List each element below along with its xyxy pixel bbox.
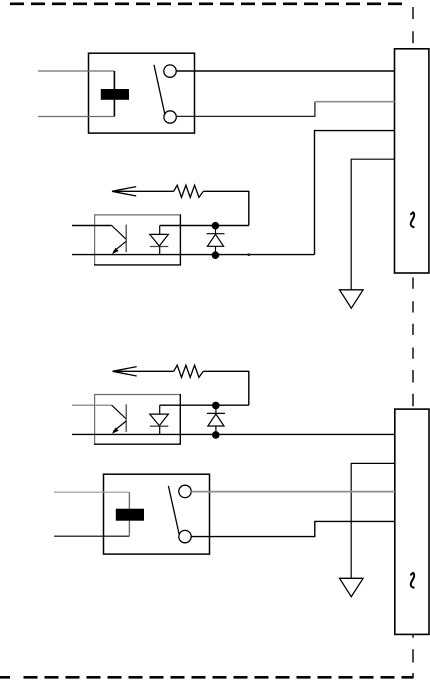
relay K1 contact bottom	[164, 111, 176, 123]
stub on return net	[248, 253, 250, 256]
wire K2 bottom contact to J2	[191, 521, 395, 536]
optocoupler U1 phototransistor	[112, 226, 127, 240]
relay K1 switch blade	[154, 65, 165, 115]
wire arrow to resistor R2	[114, 370, 174, 372]
wire arrow to resistor R1	[113, 190, 174, 192]
protection diode D1	[207, 226, 225, 255]
wire return net 2 to J2	[72, 433, 395, 435]
relay K1 coil block	[101, 89, 129, 100]
wire K1 coil top lead	[38, 70, 114, 72]
relay K1 body	[89, 53, 195, 133]
protection diode D2	[207, 405, 225, 434]
relay K2 body	[104, 474, 210, 554]
wire K1 top contact to J1	[176, 70, 394, 72]
wire ground net 1	[351, 159, 394, 290]
optocoupler U2 phototransistor	[112, 405, 127, 419]
board boundary dashed top edge	[10, 2, 407, 5]
wire return net through U1 to jog	[72, 254, 315, 256]
junction node D	[212, 431, 220, 439]
wire U2 collector lead	[72, 404, 112, 406]
junction node A	[212, 222, 220, 230]
board boundary dashed bottom edge	[0, 676, 414, 679]
relay K1 contact top	[164, 65, 176, 77]
wire R2 to node C	[203, 371, 248, 405]
wire K2 top contact to J2	[191, 491, 395, 493]
wire K1 coil bottom lead	[38, 116, 114, 118]
off-page arrow to input net 2	[113, 367, 137, 376]
optocoupler U2 body	[95, 395, 181, 445]
relay K2 contact bottom	[179, 530, 191, 542]
ground symbol 1	[340, 290, 364, 308]
resistor R2	[174, 365, 204, 377]
wire K1 bottom contact to J1	[176, 102, 315, 117]
wire ground net 2	[351, 463, 395, 578]
wire U1 led anode to node A	[160, 225, 249, 227]
board boundary dashed right edge	[412, 7, 414, 677]
resistor R1	[174, 185, 204, 197]
connector J2	[395, 409, 429, 634]
wire K2 coil bottom lead	[54, 535, 129, 537]
relay K2 coil block	[116, 509, 144, 521]
ground symbol 2	[340, 578, 364, 596]
wire R1 to node A	[203, 191, 248, 225]
junction node C	[212, 402, 220, 410]
relay K2 coil conductor	[128, 492, 130, 536]
relay K2 contact top	[179, 485, 191, 497]
relay K1 coil conductor	[113, 71, 115, 117]
optocoupler U2 led	[159, 405, 161, 414]
junction node B	[212, 251, 220, 259]
optocoupler U1 body	[95, 215, 181, 265]
connector J2 contact squiggle	[411, 573, 414, 588]
wire return net to J1	[315, 131, 395, 255]
connector J1	[395, 49, 429, 273]
wire jog segment to J1	[315, 101, 395, 103]
wire U1 collector lead	[72, 225, 112, 227]
wire K2 coil top lead	[54, 491, 129, 493]
relay K2 switch blade	[168, 486, 179, 535]
connector J1 contact squiggle	[411, 212, 414, 227]
optocoupler U1 led	[159, 226, 161, 235]
off-page arrow to input net 1	[112, 187, 136, 196]
wire U2 led anode to node C	[160, 404, 249, 406]
